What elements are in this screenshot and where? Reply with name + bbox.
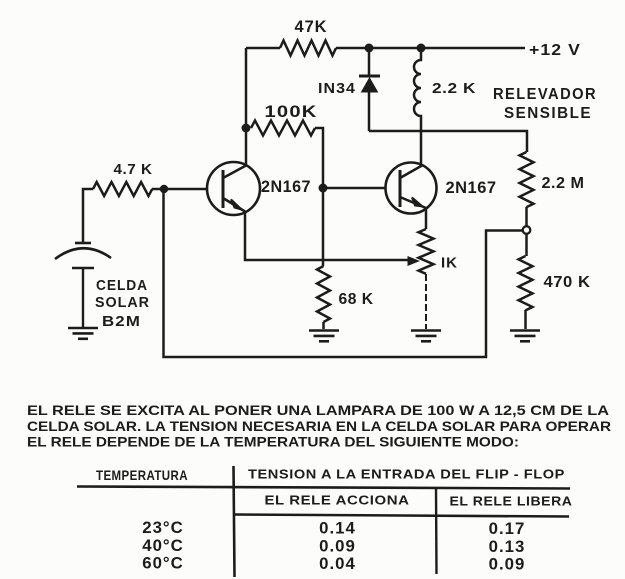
wire top rail left (+12V rail from T1 collector corner to R1) [246, 47, 280, 50]
label +12 V [529, 42, 581, 59]
table header TEMPERATURA [96, 468, 188, 483]
wire 68K bottom lead [322, 322, 325, 329]
wire 1K bottom lead [425, 274, 427, 329]
svg-text:TEMPERATURA: TEMPERATURA [96, 468, 188, 483]
svg-text:2.2 M: 2.2 M [542, 175, 585, 192]
svg-text:23°C: 23°C [142, 518, 184, 537]
wire Q2 emitter to 1K [425, 207, 428, 229]
label RELEVADOR SENSIBLE [493, 86, 597, 122]
table subheader rule [234, 515, 570, 517]
svg-text:0.13: 0.13 [489, 537, 526, 556]
diode D1 1N34 [318, 48, 380, 131]
wire top rail right to +12V [336, 47, 525, 50]
resistor R3 68K [317, 266, 374, 322]
svg-text:IN34: IN34 [318, 80, 356, 97]
svg-text:TENSION A LA ENTRADA DEL FLIP: TENSION A LA ENTRADA DEL FLIP - FLOP [248, 467, 565, 482]
node Q1 base junction [160, 185, 168, 193]
svg-text:EL RELE SE EXCITA AL PONER UNA: EL RELE SE EXCITA AL PONER UNA LAMPARA D… [27, 403, 609, 418]
svg-text:40°C: 40°C [142, 536, 184, 555]
svg-text:47K: 47K [295, 17, 328, 36]
node coil top junction [417, 44, 426, 53]
svg-text:CELDA SOLAR. LA TENSION NECESA: CELDA SOLAR. LA TENSION NECESARIA EN LA … [27, 419, 611, 434]
caption text [27, 403, 611, 450]
svg-text:IK: IK [441, 255, 458, 272]
resistor R2 100K [251, 103, 318, 136]
transistor Q2 2N167 [386, 163, 497, 214]
wire T1 collector vertical [245, 48, 248, 166]
svg-text:EL RELE DEPENDE DE LA TEMPERAT: EL RELE DEPENDE DE LA TEMPERATURA DEL SI… [27, 435, 519, 450]
table data rows [142, 518, 525, 574]
relay coil L1 2.2K (relevador) [414, 48, 476, 166]
table header rule [77, 487, 570, 489]
svg-text:68 K: 68 K [339, 291, 374, 308]
ground solar cell [68, 328, 98, 339]
table subheader EL RELE LIBERA [450, 494, 573, 509]
svg-text:2N167: 2N167 [261, 178, 311, 196]
wire 4.7K to Q1 base [152, 188, 207, 191]
wire 100K right lead down to T2 base [315, 128, 323, 188]
node diode top junction [365, 44, 374, 53]
table subheader EL RELE ACCIONA [265, 493, 410, 508]
svg-text:RELEVADOR: RELEVADOR [493, 86, 597, 103]
svg-text:0.09: 0.09 [489, 555, 526, 574]
svg-text:2.2 K: 2.2 K [432, 80, 476, 97]
resistor R7 4.7K [83, 162, 153, 243]
svg-text:EL RELE LIBERA: EL RELE LIBERA [450, 494, 573, 509]
svg-text:4.7 K: 4.7 K [114, 162, 153, 178]
svg-text:B2M: B2M [102, 314, 141, 330]
node 100K left junction [242, 124, 251, 133]
svg-text:0.14: 0.14 [319, 519, 356, 538]
ground 1K [411, 331, 441, 342]
ground 68K [309, 331, 339, 342]
svg-text:0.04: 0.04 [319, 554, 356, 573]
wire 68K top lead [322, 188, 325, 266]
resistor R6 470K [519, 234, 591, 310]
resistor R1 47K [280, 17, 336, 56]
svg-text:2N167: 2N167 [446, 179, 497, 197]
svg-text:+12 V: +12 V [529, 42, 581, 59]
svg-text:SOLAR: SOLAR [95, 295, 150, 311]
wire 2.2M bottom to node [525, 207, 528, 226]
svg-text:470 K: 470 K [544, 274, 591, 291]
solar cell B2M [55, 243, 150, 330]
svg-text:SENSIBLE: SENSIBLE [504, 105, 592, 122]
wire Q1 emitter down and across to 1K wiper [245, 211, 420, 266]
resistor R5 2.2M [520, 152, 585, 207]
wire 470K bottom lead [524, 310, 527, 329]
svg-text:0.17: 0.17 [489, 519, 526, 538]
svg-text:100K: 100K [265, 103, 318, 121]
potentiometer R4 1K [419, 229, 459, 274]
svg-text:EL RELE ACCIONA: EL RELE ACCIONA [265, 493, 410, 508]
table header TENSION [248, 467, 565, 482]
svg-text:CELDA: CELDA [96, 278, 148, 294]
svg-text:60°C: 60°C [142, 554, 184, 573]
table column separator 2 [435, 488, 438, 574]
wire T2 base [323, 187, 386, 190]
svg-text:0.09: 0.09 [319, 537, 356, 556]
transistor Q1 2N167 [207, 162, 311, 215]
table column separator 1 [234, 466, 235, 577]
node T2 base junction [319, 184, 328, 193]
node divider junction (open) [523, 226, 531, 234]
ground 470K [510, 331, 540, 342]
wire diode bottom to 2.2M corner [369, 131, 527, 152]
wire feedback: base node down, across bottom, up to divider node [164, 189, 523, 357]
